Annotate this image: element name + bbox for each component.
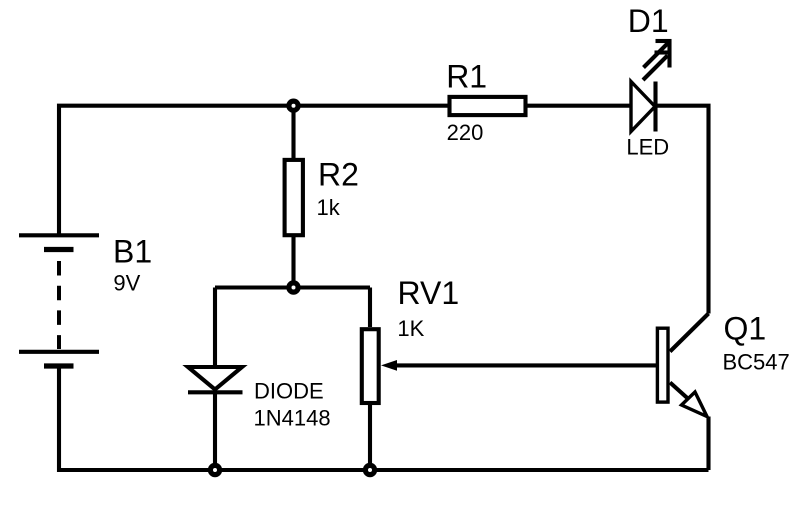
svg-text:BC547: BC547 bbox=[723, 350, 790, 375]
wire R2 top bbox=[291, 106, 295, 158]
resistor R2 bbox=[285, 160, 303, 235]
svg-text:D1: D1 bbox=[628, 3, 669, 39]
svg-text:1K: 1K bbox=[397, 316, 424, 341]
label B1 bbox=[113, 234, 152, 270]
svg-text:B1: B1 bbox=[113, 234, 152, 270]
svg-text:LED: LED bbox=[626, 134, 669, 159]
label R1 bbox=[446, 59, 487, 95]
junction node diode bottom bbox=[210, 465, 219, 474]
wire node row (diode to RV1) bbox=[215, 285, 370, 289]
junction node RV1 bottom bbox=[365, 465, 374, 474]
svg-text:Q1: Q1 bbox=[724, 311, 767, 347]
junction node R2 top bbox=[289, 101, 298, 110]
svg-text:220: 220 bbox=[447, 120, 484, 145]
diode D2 1N4148 bbox=[188, 288, 243, 471]
wire top rail left segment bbox=[59, 106, 448, 236]
junction node R2 bottom bbox=[289, 283, 298, 292]
resistor R1 bbox=[450, 97, 526, 115]
wiper arrow RV1 to Q1 base bbox=[381, 360, 656, 371]
wire R2 bottom bbox=[291, 237, 295, 288]
svg-text:1N4148: 1N4148 bbox=[254, 406, 331, 431]
svg-text:9V: 9V bbox=[113, 271, 140, 296]
value LED bbox=[626, 134, 669, 159]
label R2 bbox=[318, 157, 359, 193]
label D1 bbox=[628, 3, 669, 39]
battery B1 bbox=[19, 235, 99, 366]
svg-text:R1: R1 bbox=[446, 59, 487, 95]
svg-text:RV1: RV1 bbox=[398, 275, 460, 311]
value 220 bbox=[447, 120, 484, 145]
value BC547 bbox=[723, 350, 790, 375]
value 1K bbox=[397, 316, 424, 341]
value 9V bbox=[113, 271, 140, 296]
transistor Q1 bbox=[657, 314, 708, 471]
svg-text:R2: R2 bbox=[318, 157, 359, 193]
svg-text:DIODE: DIODE bbox=[254, 379, 324, 404]
value 1k bbox=[317, 195, 341, 220]
wire top rail R1 to LED bbox=[527, 104, 631, 108]
label Q1 bbox=[724, 311, 767, 347]
label RV1 bbox=[398, 275, 460, 311]
potentiometer RV1 bbox=[362, 288, 379, 471]
wire LED cathode to right rail corner bbox=[656, 106, 709, 314]
wire battery minus to bottom rail bbox=[59, 366, 709, 470]
LED D1 bbox=[631, 40, 672, 132]
value 1N4148 bbox=[254, 406, 331, 431]
svg-text:1k: 1k bbox=[317, 195, 341, 220]
value DIODE bbox=[254, 379, 324, 404]
